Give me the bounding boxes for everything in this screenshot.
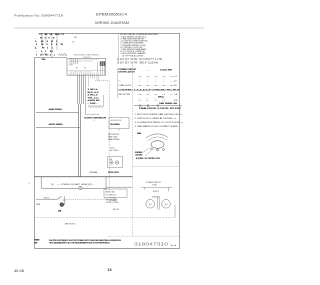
cluster label row 6: [36, 51, 53, 53]
svg-text:LOCKED: LOCKED: [135, 155, 143, 157]
wire L1 drop: [42, 33, 57, 58]
svg-text:9: 9: [47, 41, 48, 43]
svg-text:1-4: 1-4: [174, 76, 177, 78]
svg-text:MG-4895L: MG-4895L: [111, 124, 121, 126]
wire N drop: [51, 33, 53, 58]
wire long 1: [78, 104, 80, 177]
svg-text:Publication No: 5995447718: Publication No: 5995447718: [14, 14, 63, 18]
oven light branch riser: [40, 177, 42, 188]
svg-text:1 BK-5: 1 BK-5: [88, 89, 98, 91]
svg-text:1 -: 1 -: [119, 81, 122, 83]
tod contact a dot: [111, 162, 112, 163]
svg-text:1. MOTOR ROTATES CAM 180 DEG C: 1. MOTOR ROTATES CAM 180 DEG CW. -o: [135, 113, 182, 116]
svg-text:THIS DIAGRAM MEETS ALL THE REQ: THIS DIAGRAM MEETS ALL THE REQUIREMENTS …: [49, 242, 110, 245]
door switch riser: [63, 196, 65, 205]
svg-text:BK: BK: [45, 34, 48, 36]
table col marks row 1: [139, 76, 174, 78]
wire color labels column: [88, 89, 101, 105]
connector block P1: [100, 61, 106, 66]
svg-text:EPBM3065GC4: EPBM3065GC4: [96, 12, 127, 16]
svg-text:2 3/4 QT. WTR. SELF CLEAN: 2 3/4 QT. WTR. SELF CLEAN: [117, 62, 158, 65]
relay board box: [109, 118, 129, 129]
svg-text:2: 2: [45, 51, 46, 53]
wire long 2: [80, 104, 82, 177]
svg-text:40-06: 40-06: [14, 269, 24, 273]
svg-text:- o: - o: [139, 100, 141, 102]
svg-text:o-o: o-o: [147, 85, 150, 87]
svg-text:8: 8: [41, 51, 42, 53]
sensor feed line: [85, 113, 99, 115]
cord loop left: [146, 200, 155, 209]
svg-text:o-o: o-o: [163, 85, 166, 87]
cord pair wire a: [157, 197, 159, 210]
svg-text:1: 1: [36, 54, 37, 56]
svg-text:- o: - o: [155, 100, 157, 102]
svg-text:1: 1: [45, 37, 46, 39]
oven sensor resistor: [88, 105, 103, 107]
lamp riser: [105, 177, 107, 190]
svg-text:N1: N1: [50, 34, 54, 36]
svg-text:P#2-: P#2-: [42, 59, 47, 61]
panel divider dashed horizontal: [133, 166, 180, 168]
P1 wire b: [102, 65, 104, 75]
wire inside EOC: [97, 62, 99, 73]
svg-text:N: N: [53, 37, 55, 39]
wire L2 drop: [56, 33, 58, 50]
svg-text:YEL 2-C: YEL 2-C: [88, 98, 100, 100]
svg-text:OVEN SENSOR: OVEN SENSOR: [84, 117, 107, 119]
resistor hum1: [41, 53, 49, 55]
table row 5: [119, 94, 174, 96]
svg-text:6: 6: [51, 44, 52, 46]
cam follower a: [151, 148, 153, 150]
svg-text:BK: BK: [52, 184, 55, 186]
cluster label row 2: [35, 37, 55, 39]
diagram border frame: [35, 34, 180, 249]
svg-text:4-: 4-: [35, 47, 37, 49]
wire dash-dot riser: [108, 81, 110, 190]
EOC internal divider: [67, 70, 105, 72]
svg-text:MICRO SW: MICRO SW: [106, 191, 115, 193]
svg-text:3. PLUNGER EXTENDS TO LOCK DOO: 3. PLUNGER EXTENDS TO LOCK DOOR. -o: [135, 122, 183, 124]
tod box: [108, 157, 123, 168]
wire supply bus: [34, 57, 67, 59]
svg-text:CORD: CORD: [152, 185, 158, 187]
ground bus dashed: [34, 217, 175, 219]
cam arc: [146, 134, 168, 138]
svg-text:48B: 48B: [58, 211, 62, 213]
micro switch box: [104, 189, 127, 198]
header rule: [14, 27, 204, 29]
svg-text:TB: TB: [41, 44, 44, 46]
svg-text:L2: L2: [62, 34, 65, 36]
svg-text:B: B: [49, 37, 51, 39]
svg-text:DOOR LOCK: DOOR LOCK: [108, 172, 120, 174]
sensor tick: [93, 120, 95, 121]
svg-text:13: 13: [108, 268, 112, 272]
svg-text:o o: o o: [147, 76, 150, 78]
wire stubs from EOC: [89, 75, 99, 87]
cord bracket drop b: [168, 187, 170, 191]
wire bake: [36, 112, 79, 114]
svg-text:o o: o o: [163, 76, 166, 78]
tod contact b: [115, 161, 118, 164]
node labels top row: [40, 34, 65, 36]
svg-text:~BROIL 3400W~: ~BROIL 3400W~: [48, 124, 64, 126]
svg-text:DOOR LATCH: DOOR LATCH: [119, 70, 136, 73]
svg-text:123456789112131415: 123456789112131415: [70, 61, 93, 63]
main neutral bus: [34, 176, 133, 178]
svg-text:o-o: o-o: [155, 85, 158, 87]
lock switch S1: [139, 105, 141, 107]
door switch cross tick: [63, 199, 66, 201]
svg-text:-: -: [35, 37, 36, 39]
ground riser: [174, 205, 176, 218]
table row 6: [139, 98, 165, 100]
P1 wire c: [103, 65, 105, 75]
wire broil: [36, 127, 81, 129]
svg-text:3: 3: [47, 47, 48, 49]
svg-text:o o: o o: [171, 76, 174, 78]
svg-text:SW No.: SW No.: [158, 97, 165, 99]
svg-text:- -: - -: [139, 81, 141, 83]
cord loop right: [162, 200, 171, 209]
tod contact a: [110, 161, 113, 164]
cord loop right inner: [164, 202, 168, 205]
svg-text:W+B: W+B: [55, 34, 60, 36]
P1 wire a: [100, 65, 102, 75]
wire bundle 3: [81, 75, 83, 104]
svg-text:CATL: CATL: [36, 203, 41, 206]
svg-text:3 RD-3: 3 RD-3: [88, 95, 98, 97]
svg-text:-.- OVEN LIGHT 40W (2) -: -.- OVEN LIGHT 40W (2) -: [57, 184, 95, 186]
svg-text:UNLOCK LOCK STOP: UNLOCK LOCK STOP: [139, 108, 183, 110]
svg-text:& FUNC. OF DOOR LOCK: & FUNC. OF DOOR LOCK: [136, 158, 161, 160]
svg-text:4: 4: [47, 44, 48, 46]
svg-text:SEE NOTE 4: SEE NOTE 4: [65, 223, 76, 225]
svg-text:o o: o o: [139, 76, 142, 78]
svg-text:K1: K1: [76, 68, 78, 70]
svg-text:W: W: [73, 42, 75, 44]
cord pair wire b: [158, 197, 160, 210]
svg-text:o-o: o-o: [171, 85, 174, 87]
cam follower b: [157, 149, 159, 151]
svg-text:P2: P2: [40, 37, 42, 39]
svg-text:. . .: . . .: [146, 70, 149, 72]
svg-text:-: -: [36, 51, 37, 53]
svg-text:5: 5: [52, 47, 53, 49]
cluster label row 5: [35, 47, 53, 49]
tod text rows: [108, 134, 120, 152]
svg-text:o -: o -: [163, 100, 166, 102]
wire BK drop: [45, 33, 47, 44]
svg-text:2-: 2-: [35, 41, 37, 43]
svg-text:10. TYP FOR ALL UNITS: 10. TYP FOR ALL UNITS: [122, 54, 144, 57]
svg-text:- -: - -: [155, 81, 157, 83]
wire bundle 4: [83, 75, 85, 104]
svg-text:- -: - -: [171, 81, 173, 83]
table row 2: [119, 81, 173, 83]
connector mark: [104, 198, 108, 199]
oven light wire: [41, 188, 106, 190]
svg-text:2-5: 2-5: [174, 81, 177, 83]
svg-text:ALL RH: ALL RH: [113, 208, 120, 211]
svg-text:J2: J2: [40, 54, 42, 56]
svg-text:o o: o o: [155, 94, 158, 96]
svg-text:4: 4: [50, 54, 51, 56]
wire bundle 1: [78, 75, 84, 177]
svg-text:4-49% BR: 4-49% BR: [88, 100, 101, 102]
svg-text:o o: o o: [155, 76, 158, 78]
svg-text:P12: P12: [70, 65, 73, 67]
svg-text:THERMAL: THERMAL: [89, 171, 98, 174]
cam follower c: [163, 149, 165, 151]
linkage stroke 2: [145, 151, 151, 156]
svg-text:L1.: L1.: [40, 34, 43, 36]
table bottom marks row: [139, 100, 178, 102]
svg-text:o -: o -: [171, 94, 174, 96]
svg-text:8: 8: [56, 44, 57, 46]
lock switch S3: [157, 105, 159, 107]
svg-text:P9: P9: [42, 47, 44, 49]
svg-text:3-6: 3-6: [174, 85, 177, 87]
linkage stroke 1: [142, 148, 149, 153]
svg-text:UNLOCK: UNLOCK: [119, 85, 133, 87]
svg-text:TB: TB: [61, 44, 64, 46]
svg-text:LOCK SW: LOCK SW: [160, 69, 172, 71]
svg-text:-P: -P: [29, 183, 32, 185]
svg-text:K2: K2: [84, 68, 86, 70]
svg-text:2. SWITCH CLOSES AT 30 DEG. o-: 2. SWITCH CLOSES AT 30 DEG. o-: [135, 117, 177, 120]
EOC top pin row: [70, 58, 97, 64]
svg-text:BN: BN: [50, 51, 53, 53]
notes block heading: [120, 34, 159, 57]
legend line 1: [135, 113, 183, 128]
svg-text:DOOR CLOSED: DOOR CLOSED: [106, 202, 119, 204]
wire bundle 2: [79, 75, 81, 104]
svg-text:2 1/2 QT. WTR. IN CAVITY 1 HR: 2 1/2 QT. WTR. IN CAVITY 1 HR: [117, 58, 162, 61]
svg-text:N.C. 590 F: N.C. 590 F: [110, 150, 120, 152]
tod contact b dot: [117, 162, 118, 163]
wire P5 horizontal: [106, 186, 133, 188]
svg-text:CAM TRAVEL 180: CAM TRAVEL 180: [159, 102, 177, 105]
svg-text:STD 2: STD 2: [44, 198, 49, 200]
label column rail wire: [84, 75, 86, 114]
svg-text:CAUTION DISCONNECT ELECTRIC PO: CAUTION DISCONNECT ELECTRIC POWER SUPPLY…: [49, 239, 122, 242]
wire dashed to P4: [95, 80, 109, 82]
svg-text:2: 2: [56, 41, 57, 43]
svg-text:8.8: 8.8: [110, 159, 113, 161]
bulb B1: [60, 203, 64, 207]
svg-text:WIRING DIAGRAM: WIRING DIAGRAM: [95, 21, 129, 25]
svg-text:o o: o o: [139, 94, 142, 96]
oven lamp DS1: [79, 186, 82, 189]
svg-text:CAM DRIVEN: CAM DRIVEN: [108, 138, 120, 141]
wire dashed to connector: [66, 198, 104, 200]
svg-text:C-N: C-N: [174, 94, 178, 96]
svg-text:318047310: 318047310: [134, 241, 169, 246]
svg-text:- -: - -: [163, 81, 165, 83]
svg-text:~BAKE 2585W~: ~BAKE 2585W~: [48, 108, 63, 111]
svg-text:BLK 4-5: BLK 4-5: [88, 92, 100, 94]
door switch feed wire: [36, 198, 58, 200]
svg-text:3: 3: [36, 44, 37, 46]
svg-text:N.O. HELD CL: N.O. HELD CL: [106, 195, 117, 197]
cluster label row 3: [35, 41, 57, 43]
svg-text:Rev. A: Rev. A: [171, 244, 177, 247]
cluster label row 7: [36, 54, 55, 56]
svg-text:B-W: B-W: [174, 100, 178, 102]
svg-text:- 186 -: - 186 -: [88, 103, 99, 105]
svg-text:o -: o -: [147, 100, 150, 102]
svg-text:MOTOR: MOTOR: [119, 94, 132, 96]
cluster label row 4: [36, 44, 64, 46]
label col right wire: [103, 95, 105, 107]
relay board tick: [118, 129, 120, 131]
resistor hum2: [58, 54, 67, 56]
svg-text:- -: - -: [147, 81, 149, 83]
EOC control board U1: [67, 58, 106, 75]
svg-text:4. SEE MATRIX FOR CONTACT STAT: 4. SEE MATRIX FOR CONTACT STATE.: [135, 125, 180, 128]
svg-text:W: W: [51, 41, 53, 43]
svg-text:BK: BK: [75, 37, 78, 39]
table row 3: [119, 85, 174, 87]
panel divider dashed vertical: [132, 65, 134, 237]
svg-text:BK: BK: [41, 41, 44, 43]
svg-text:SHOWN: SHOWN: [135, 152, 143, 154]
switch table left rail: [116, 68, 118, 99]
lock switch S2: [147, 105, 149, 107]
svg-text:DOOR LOCK: DOOR LOCK: [111, 120, 123, 122]
title block divider dashed: [108, 235, 180, 237]
cord bracket: [141, 186, 172, 188]
door switch S4 blade: [58, 196, 62, 199]
svg-text:o o: o o: [147, 94, 150, 96]
svg-text:CAM: CAM: [137, 132, 141, 135]
svg-text:NOTE 5: NOTE 5: [153, 191, 159, 193]
notes rail: [117, 34, 119, 65]
cord loop left inner: [148, 202, 152, 205]
pin row of EOC: [70, 73, 99, 75]
svg-text:o: o: [54, 54, 55, 56]
junction tick: [65, 54, 67, 56]
svg-text:LOCKED 1-2-3-4-5-6 COM-NO-NC-W: LOCKED 1-2-3-4-5-6 COM-NO-NC-W-B: [119, 90, 181, 92]
cord bracket drop a: [144, 187, 146, 189]
svg-text:WARN: WARN: [35, 239, 41, 242]
svg-text:o-o: o-o: [139, 85, 142, 87]
lock motor M1: [151, 141, 164, 149]
lock circuit rule: [134, 105, 182, 107]
svg-text:ING: ING: [35, 243, 39, 245]
